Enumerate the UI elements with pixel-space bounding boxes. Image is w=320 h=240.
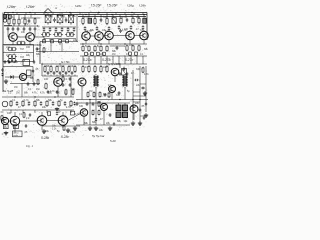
svg-text:xtal: xtal (6, 54, 10, 57)
svg-text:5-29: 5-29 (110, 139, 116, 143)
svg-text:f.26c: f.26c (75, 4, 82, 8)
svg-text:H.P.: H.P. (20, 48, 25, 51)
svg-text:4.7k: 4.7k (122, 16, 127, 19)
svg-text:f.26er: f.26er (7, 5, 17, 9)
svg-text:4H: 4H (4, 127, 7, 129)
svg-text:f.5-26F: f.5-26F (107, 4, 118, 8)
svg-text:100: 100 (26, 46, 31, 49)
svg-text:5-27a: 5-27a (83, 58, 92, 62)
svg-text:5y 5y-har: 5y 5y-har (92, 134, 106, 138)
svg-text:4.7k: 4.7k (144, 73, 149, 76)
svg-text:Fig. 1: Fig. 1 (26, 144, 33, 148)
svg-text:100: 100 (7, 112, 12, 115)
svg-text:xtal: xtal (6, 46, 10, 49)
svg-text:1M: 1M (112, 53, 115, 56)
svg-text:5-27c: 5-27c (125, 58, 134, 62)
svg-text:330: 330 (79, 105, 84, 108)
svg-text:330: 330 (116, 94, 121, 97)
svg-text:330: 330 (60, 74, 65, 77)
svg-text:4.7k: 4.7k (75, 113, 80, 116)
svg-text:1M: 1M (89, 90, 92, 93)
svg-text:4.7k: 4.7k (24, 99, 29, 102)
svg-text:1M: 1M (14, 86, 17, 89)
svg-text:330: 330 (103, 16, 108, 19)
svg-text:1M: 1M (16, 92, 19, 95)
svg-text:5-28c: 5-28c (61, 135, 69, 139)
svg-text:4.7k: 4.7k (40, 92, 45, 95)
svg-text:4.7k: 4.7k (70, 131, 75, 134)
